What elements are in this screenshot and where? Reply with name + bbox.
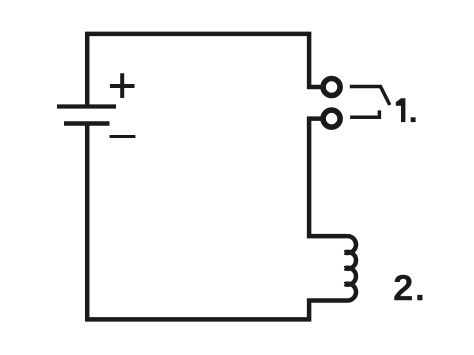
switch blade: top lead and diagonal lever [350, 87, 390, 106]
switch S1 bottom terminal circle [323, 110, 340, 127]
label 1. [396, 98, 416, 122]
battery short (negative) plate [64, 121, 110, 126]
label 2. [394, 275, 422, 301]
inductor L (coil, 4 bumps) [345, 236, 356, 300]
switch bottom lead with up tick [350, 110, 379, 117]
wire: left+top+right upper segment to switch top terminal [87, 34, 323, 106]
wire: coil bottom to bottom rail and left rail up to battery [87, 124, 347, 319]
battery plus sign [110, 73, 135, 98]
battery minus sign [110, 135, 136, 138]
switch S1 top terminal circle [323, 79, 340, 96]
battery long (positive) plate [57, 104, 116, 108]
wire: bottom circuit loop from switch bottom terminal through to battery negative [309, 119, 347, 237]
